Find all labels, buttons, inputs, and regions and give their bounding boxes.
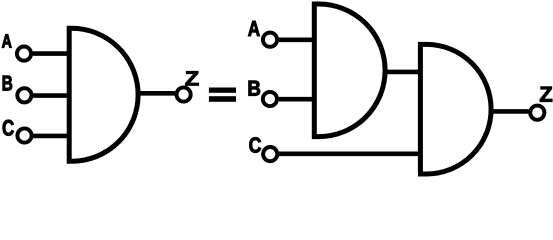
wire B to gate U2 [279,97,315,102]
node Z (right) label [540,87,552,102]
wire U2 output to U3 input [385,70,420,75]
AND gate U2 (2-input) [314,4,385,137]
node B (left) label [3,76,12,91]
wire C to gate U3 [279,152,420,157]
wire C to gate U1 [33,134,69,139]
node B (right) label [249,81,260,96]
wire A to gate U2 [279,37,315,42]
wire U3 output to Z [491,109,529,114]
input terminal C (right) [263,147,277,161]
AND gate U1 (3-input) [69,28,138,161]
input terminal C (left) [17,128,31,142]
equals sign [209,88,236,102]
AND gate U3 (2-input) [420,44,491,174]
node Z (left) label [186,71,199,85]
input terminal A (right) [263,33,277,47]
wire U1 output to Z [138,91,175,96]
node A (right) label [248,21,260,36]
output terminal Z (left) [177,87,191,101]
input terminal B (right) [263,92,277,106]
node C (left) label [3,120,14,136]
input terminal A (left) [17,47,31,61]
input terminal B (left) [17,88,31,102]
wire B to gate U1 [33,93,69,98]
node C (right) label [249,137,260,152]
node A (left) label [2,35,11,48]
wire A to gate U1 [33,51,69,56]
output terminal Z (right) [530,106,544,120]
